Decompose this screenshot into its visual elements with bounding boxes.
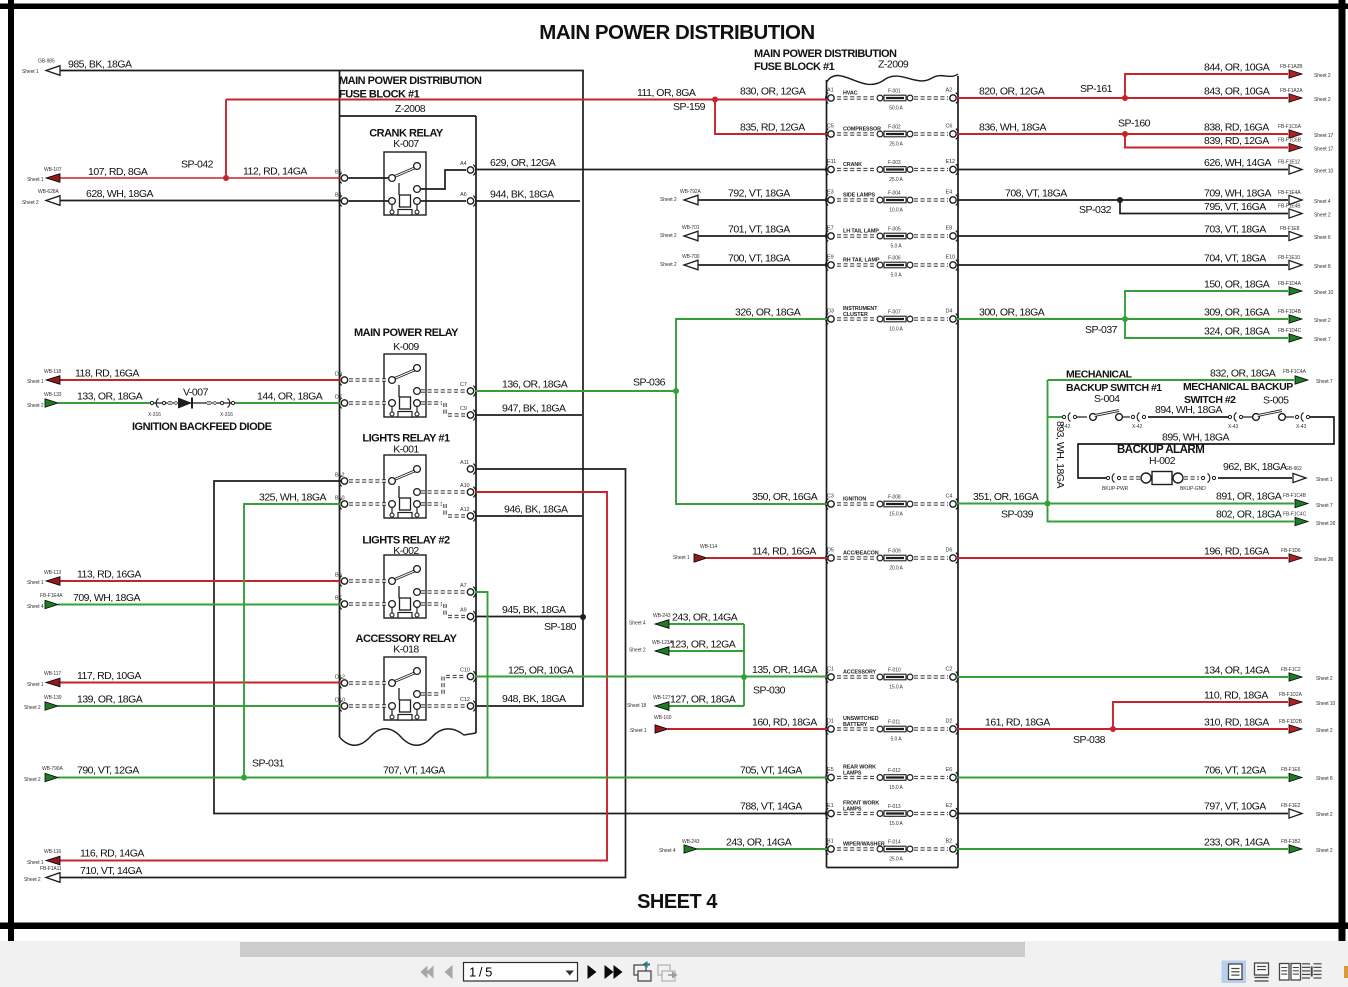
- svg-text:947, BK, 18GA: 947, BK, 18GA: [502, 403, 566, 415]
- svg-text:WB-628A: WB-628A: [38, 189, 59, 195]
- svg-text:WB-113: WB-113: [44, 570, 61, 576]
- svg-text:Sheet 17: Sheet 17: [1314, 133, 1334, 139]
- svg-text:705, VT, 14GA: 705, VT, 14GA: [740, 765, 802, 777]
- svg-text:946, BK, 18GA: 946, BK, 18GA: [504, 504, 568, 516]
- svg-text:Sheet 7: Sheet 7: [1316, 503, 1333, 509]
- svg-text:D4: D4: [946, 309, 953, 315]
- svg-text:CLUSTER: CLUSTER: [843, 312, 868, 318]
- svg-text:FB-F1C4A: FB-F1C4A: [1283, 369, 1307, 375]
- svg-text:Sheet 17: Sheet 17: [1314, 147, 1334, 153]
- svg-text:160, RD, 18GA: 160, RD, 18GA: [752, 717, 817, 729]
- svg-text:E3: E3: [827, 190, 834, 196]
- svg-text:WB-160: WB-160: [654, 715, 672, 721]
- svg-text:D2: D2: [946, 719, 953, 725]
- svg-text:324, OR, 18GA: 324, OR, 18GA: [1204, 326, 1270, 338]
- svg-text:K-001: K-001: [393, 444, 419, 456]
- svg-text:Sheet 2: Sheet 2: [22, 200, 39, 206]
- svg-text:E5: E5: [827, 767, 834, 773]
- svg-text:K-018: K-018: [393, 644, 419, 656]
- svg-text:844, OR, 10GA: 844, OR, 10GA: [1204, 62, 1270, 74]
- svg-text:Sheet 2: Sheet 2: [1316, 848, 1333, 854]
- svg-text:Sheet 1: Sheet 1: [27, 177, 44, 183]
- svg-text:Sheet 1: Sheet 1: [27, 379, 44, 385]
- svg-text:Sheet 4: Sheet 4: [659, 848, 676, 854]
- svg-text:SP-161: SP-161: [1080, 83, 1113, 95]
- svg-text:Z-2009: Z-2009: [878, 59, 909, 71]
- svg-text:A2: A2: [946, 88, 953, 94]
- svg-text:788, VT, 14GA: 788, VT, 14GA: [740, 801, 802, 813]
- svg-text:WB-107: WB-107: [44, 167, 62, 173]
- svg-text:F-004: F-004: [888, 191, 901, 197]
- svg-text:113, RD, 16GA: 113, RD, 16GA: [77, 569, 141, 581]
- svg-text:Sheet 2: Sheet 2: [24, 877, 41, 883]
- svg-text:802, OR, 18GA: 802, OR, 18GA: [1216, 509, 1282, 521]
- svg-text:25.0 A: 25.0 A: [889, 177, 903, 183]
- svg-text:K-007: K-007: [393, 138, 419, 150]
- svg-text:SP-036: SP-036: [633, 377, 666, 389]
- svg-text:C12: C12: [460, 697, 470, 703]
- svg-text:710, VT, 14GA: 710, VT, 14GA: [80, 865, 142, 877]
- svg-text:Sheet 1: Sheet 1: [27, 580, 44, 586]
- svg-text:B9: B9: [335, 573, 342, 579]
- svg-text:WB-123A: WB-123A: [652, 640, 673, 646]
- svg-text:C5: C5: [827, 124, 834, 130]
- svg-text:WB-127: WB-127: [653, 695, 671, 701]
- svg-text:Sheet 26: Sheet 26: [1314, 557, 1334, 563]
- svg-text:116, RD, 14GA: 116, RD, 14GA: [80, 848, 144, 860]
- svg-text:CRANK: CRANK: [843, 162, 862, 168]
- svg-text:FB-F1C4B: FB-F1C4B: [1283, 493, 1307, 499]
- svg-text:SP-180: SP-180: [544, 621, 577, 633]
- svg-text:114, RD, 16GA: 114, RD, 16GA: [752, 546, 816, 558]
- svg-text:351, OR, 16GA: 351, OR, 16GA: [973, 491, 1039, 503]
- svg-text:BKUP-PWR: BKUP-PWR: [1102, 486, 1129, 492]
- svg-text:WB-117: WB-117: [44, 671, 61, 677]
- svg-text:H-002: H-002: [1149, 455, 1176, 467]
- svg-text:FB-F1A11: FB-F1A11: [40, 866, 62, 872]
- svg-text:326, OR, 18GA: 326, OR, 18GA: [735, 307, 801, 319]
- svg-text:110, RD, 18GA: 110, RD, 18GA: [1204, 690, 1268, 702]
- svg-text:832, OR, 18GA: 832, OR, 18GA: [1210, 368, 1276, 380]
- svg-text:SP-159: SP-159: [673, 101, 706, 113]
- svg-text:FB-F1D2B: FB-F1D2B: [1279, 719, 1303, 725]
- svg-text:112, RD, 14GA: 112, RD, 14GA: [243, 166, 307, 178]
- svg-text:626, WH, 14GA: 626, WH, 14GA: [1204, 157, 1272, 169]
- svg-text:Sheet 2: Sheet 2: [1316, 812, 1333, 818]
- svg-text:FB-F1B2: FB-F1B2: [1281, 839, 1301, 845]
- svg-text:COMPRESSOR: COMPRESSOR: [843, 127, 881, 133]
- svg-text:F-009: F-009: [888, 549, 901, 555]
- svg-text:50.0 A: 50.0 A: [889, 106, 903, 112]
- svg-text:830, OR, 12GA: 830, OR, 12GA: [740, 86, 806, 98]
- svg-text:Sheet 4: Sheet 4: [27, 604, 44, 610]
- svg-text:D6: D6: [946, 548, 953, 554]
- svg-text:C3: C3: [827, 494, 834, 500]
- svg-text:BKUP-GND: BKUP-GND: [1180, 486, 1206, 492]
- svg-text:Sheet 1: Sheet 1: [27, 682, 44, 688]
- svg-text:A9: A9: [460, 608, 467, 614]
- svg-text:Sheet 8: Sheet 8: [1314, 264, 1331, 270]
- svg-text:FB-F1E10: FB-F1E10: [1278, 255, 1300, 261]
- svg-text:123, OR, 12GA: 123, OR, 12GA: [670, 639, 736, 651]
- svg-text:139, OR, 18GA: 139, OR, 18GA: [77, 694, 143, 706]
- svg-text:E9: E9: [827, 255, 834, 261]
- svg-text:F-007: F-007: [888, 310, 901, 316]
- svg-text:117, RD, 10GA: 117, RD, 10GA: [77, 670, 141, 682]
- svg-text:Sheet 2: Sheet 2: [660, 197, 677, 203]
- svg-text:FB-F1C2: FB-F1C2: [1281, 667, 1301, 673]
- svg-text:Sheet 2: Sheet 2: [1316, 676, 1333, 682]
- svg-text:Sheet 2: Sheet 2: [1314, 213, 1331, 219]
- svg-text:IGNITION BACKFEED DIODE: IGNITION BACKFEED DIODE: [132, 421, 272, 433]
- svg-text:Sheet 1: Sheet 1: [1316, 477, 1333, 483]
- svg-text:B2: B2: [946, 839, 953, 845]
- svg-text:25.0 A: 25.0 A: [889, 142, 903, 148]
- svg-text:C6: C6: [946, 124, 953, 130]
- svg-text:A12: A12: [460, 507, 470, 513]
- svg-text:FB-F1E6: FB-F1E6: [1281, 767, 1301, 773]
- svg-text:839, RD, 12GA: 839, RD, 12GA: [1204, 135, 1269, 147]
- svg-text:704, VT, 18GA: 704, VT, 18GA: [1204, 253, 1266, 265]
- svg-text:X-43: X-43: [1296, 424, 1306, 430]
- svg-text:107, RD, 8GA: 107, RD, 8GA: [88, 166, 148, 178]
- svg-text:310, RD, 18GA: 310, RD, 18GA: [1204, 717, 1269, 729]
- svg-text:838, RD, 16GA: 838, RD, 16GA: [1204, 122, 1269, 134]
- svg-text:FB-F1E8: FB-F1E8: [1280, 226, 1300, 232]
- svg-text:701, VT, 18GA: 701, VT, 18GA: [728, 224, 790, 236]
- svg-text:1 / 5: 1 / 5: [469, 965, 492, 980]
- svg-text:RH TAIL LAMP: RH TAIL LAMP: [843, 258, 880, 264]
- svg-text:WB-116: WB-116: [44, 849, 61, 855]
- svg-text:D1: D1: [827, 719, 834, 725]
- svg-text:D3: D3: [827, 309, 834, 315]
- svg-text:WB-133: WB-133: [44, 392, 62, 398]
- svg-text:15.0 A: 15.0 A: [889, 785, 903, 791]
- svg-text:Sheet 2: Sheet 2: [1314, 97, 1331, 103]
- svg-text:MAIN POWER RELAY: MAIN POWER RELAY: [354, 327, 459, 339]
- svg-text:SP-037: SP-037: [1085, 324, 1118, 336]
- svg-text:893, WH, 18GA: 893, WH, 18GA: [1054, 421, 1066, 489]
- svg-text:Sheet 26: Sheet 26: [1316, 521, 1336, 527]
- svg-text:ACC/BEACON: ACC/BEACON: [843, 551, 879, 557]
- svg-text:E7: E7: [827, 226, 834, 232]
- svg-text:196, RD, 16GA: 196, RD, 16GA: [1204, 546, 1269, 558]
- svg-text:Sheet 18: Sheet 18: [627, 703, 647, 709]
- svg-text:MECHANICAL: MECHANICAL: [1066, 369, 1133, 381]
- svg-text:BATTERY: BATTERY: [843, 722, 868, 728]
- svg-text:795, VT, 16GA: 795, VT, 16GA: [1204, 201, 1266, 213]
- svg-text:MAIN POWER DISTRIBUTION: MAIN POWER DISTRIBUTION: [754, 48, 897, 60]
- svg-text:B4: B4: [335, 193, 342, 199]
- svg-text:F-001: F-001: [888, 89, 901, 95]
- svg-text:SP-039: SP-039: [1001, 509, 1034, 521]
- svg-text:Sheet 7: Sheet 7: [1316, 379, 1333, 385]
- svg-text:Z-2008: Z-2008: [395, 103, 426, 115]
- svg-text:134, OR, 14GA: 134, OR, 14GA: [1204, 665, 1270, 677]
- svg-text:5.0 A: 5.0 A: [891, 244, 903, 250]
- svg-text:SP-032: SP-032: [1079, 204, 1112, 216]
- svg-text:WB-701: WB-701: [682, 225, 700, 231]
- svg-text:FB-F1E2: FB-F1E2: [1281, 803, 1301, 809]
- svg-text:ACCESSORY: ACCESSORY: [843, 670, 877, 676]
- svg-text:FB-F1D4C: FB-F1D4C: [1278, 328, 1302, 334]
- svg-text:Sheet 2: Sheet 2: [1314, 318, 1331, 324]
- svg-text:A1: A1: [827, 88, 834, 94]
- svg-text:A4: A4: [460, 161, 467, 167]
- svg-text:C7: C7: [460, 382, 467, 388]
- svg-text:X-43: X-43: [1228, 424, 1238, 430]
- svg-text:709, WH, 18GA: 709, WH, 18GA: [73, 592, 141, 604]
- svg-text:891, OR, 18GA: 891, OR, 18GA: [1216, 491, 1282, 503]
- svg-text:10.0 A: 10.0 A: [889, 327, 903, 333]
- svg-text:SP-042: SP-042: [181, 159, 214, 171]
- svg-text:Sheet 2: Sheet 2: [660, 262, 677, 268]
- svg-text:Sheet 10: Sheet 10: [1314, 290, 1334, 296]
- svg-text:WB-792A: WB-792A: [680, 189, 701, 195]
- svg-text:X-316: X-316: [148, 412, 161, 418]
- svg-text:MECHANICAL BACKUP: MECHANICAL BACKUP: [1183, 381, 1293, 393]
- svg-text:820, OR, 12GA: 820, OR, 12GA: [979, 86, 1045, 98]
- svg-text:709, WH, 18GA: 709, WH, 18GA: [1204, 188, 1272, 200]
- svg-text:300, OR, 18GA: 300, OR, 18GA: [979, 307, 1045, 319]
- svg-text:D5: D5: [827, 548, 834, 554]
- svg-text:SIDE LAMPS: SIDE LAMPS: [843, 193, 875, 199]
- svg-text:FB-F1D4A: FB-F1D4A: [1278, 281, 1302, 287]
- svg-text:X-42: X-42: [1132, 424, 1142, 430]
- svg-text:944, BK, 18GA: 944, BK, 18GA: [490, 189, 554, 201]
- svg-text:D10: D10: [335, 698, 345, 704]
- svg-text:125, OR, 10GA: 125, OR, 10GA: [508, 665, 574, 677]
- svg-text:FB-F1C4C: FB-F1C4C: [1283, 512, 1307, 518]
- svg-text:B10: B10: [335, 496, 345, 502]
- svg-text:FB-F1D2A: FB-F1D2A: [1279, 692, 1303, 698]
- svg-text:A7: A7: [460, 583, 467, 589]
- svg-text:FB-F1E12: FB-F1E12: [1278, 160, 1300, 166]
- svg-text:F-014: F-014: [888, 840, 901, 846]
- svg-text:700, VT, 18GA: 700, VT, 18GA: [728, 253, 790, 265]
- svg-text:FB-F1E4A: FB-F1E4A: [1278, 190, 1301, 196]
- svg-text:WB-118: WB-118: [44, 369, 61, 375]
- svg-text:Sheet 2: Sheet 2: [24, 705, 41, 711]
- svg-text:F-006: F-006: [888, 256, 901, 262]
- svg-text:HVAC: HVAC: [843, 91, 858, 97]
- svg-text:5.0 A: 5.0 A: [891, 273, 903, 279]
- svg-text:S-005: S-005: [1263, 395, 1289, 407]
- svg-text:FUSE BLOCK #1: FUSE BLOCK #1: [754, 61, 835, 73]
- svg-text:233, OR, 14GA: 233, OR, 14GA: [1204, 837, 1270, 849]
- svg-text:E2: E2: [946, 803, 953, 809]
- svg-text:FB-F1C6B: FB-F1C6B: [1278, 138, 1302, 144]
- svg-text:Sheet 10: Sheet 10: [1316, 701, 1336, 707]
- svg-text:WB-243: WB-243: [682, 839, 700, 845]
- svg-text:350, OR, 16GA: 350, OR, 16GA: [752, 491, 818, 503]
- svg-text:325, WH, 18GA: 325, WH, 18GA: [259, 492, 327, 504]
- svg-text:V-007: V-007: [183, 387, 209, 399]
- svg-text:Sheet 1: Sheet 1: [630, 728, 647, 734]
- svg-text:C1: C1: [827, 667, 834, 673]
- svg-text:C10: C10: [460, 668, 470, 674]
- svg-text:797, VT, 10GA: 797, VT, 10GA: [1204, 801, 1266, 813]
- svg-text:FB-F1C6A: FB-F1C6A: [1278, 124, 1302, 130]
- svg-text:Sheet 7: Sheet 7: [1314, 337, 1331, 343]
- svg-text:Sheet 2: Sheet 2: [1314, 73, 1331, 79]
- svg-text:A10: A10: [460, 483, 470, 489]
- svg-text:150, OR, 18GA: 150, OR, 18GA: [1204, 279, 1270, 291]
- svg-text:836, WH, 18GA: 836, WH, 18GA: [979, 122, 1047, 134]
- svg-text:15.0 A: 15.0 A: [889, 821, 903, 827]
- svg-text:Sheet 2: Sheet 2: [24, 777, 41, 783]
- svg-text:Sheet 1: Sheet 1: [22, 69, 39, 75]
- svg-text:E4: E4: [946, 190, 953, 196]
- svg-text:948, BK, 18GA: 948, BK, 18GA: [502, 693, 566, 705]
- svg-text:B12: B12: [335, 473, 345, 479]
- svg-text:A6: A6: [460, 192, 467, 198]
- svg-text:127, OR, 18GA: 127, OR, 18GA: [670, 694, 736, 706]
- svg-text:Sheet 8: Sheet 8: [1316, 776, 1333, 782]
- svg-text:MAIN POWER DISTRIBUTION: MAIN POWER DISTRIBUTION: [539, 21, 815, 44]
- svg-text:708, VT, 18GA: 708, VT, 18GA: [1005, 188, 1067, 200]
- svg-text:GB-985: GB-985: [38, 59, 55, 65]
- svg-text:A11: A11: [460, 460, 469, 466]
- svg-text:C2: C2: [946, 667, 953, 673]
- svg-text:628, WH, 18GA: 628, WH, 18GA: [86, 188, 154, 200]
- svg-text:MAIN POWER DISTRIBUTION: MAIN POWER DISTRIBUTION: [339, 75, 482, 87]
- svg-text:SP-031: SP-031: [252, 758, 285, 770]
- svg-text:FB-F1D4B: FB-F1D4B: [1278, 309, 1302, 315]
- svg-text:WB-114: WB-114: [700, 544, 717, 550]
- svg-text:Sheet 6: Sheet 6: [1314, 235, 1331, 241]
- svg-text:E10: E10: [946, 255, 956, 261]
- svg-text:FB-F1A2B: FB-F1A2B: [1280, 64, 1303, 70]
- svg-text:Sheet 4: Sheet 4: [629, 621, 646, 627]
- svg-text:135, OR, 14GA: 135, OR, 14GA: [752, 664, 818, 676]
- svg-text:WB-790A: WB-790A: [42, 766, 63, 772]
- svg-text:E8: E8: [946, 226, 953, 232]
- svg-text:SP-038: SP-038: [1073, 734, 1106, 746]
- svg-text:Sheet 2: Sheet 2: [27, 403, 44, 409]
- svg-text:E1: E1: [827, 803, 834, 809]
- svg-text:133, OR, 18GA: 133, OR, 18GA: [77, 391, 143, 403]
- svg-text:E6: E6: [946, 767, 953, 773]
- svg-text:D7: D7: [335, 395, 342, 401]
- svg-text:962, BK, 18GA: 962, BK, 18GA: [1223, 461, 1287, 473]
- svg-text:5.0 A: 5.0 A: [891, 737, 903, 743]
- svg-text:E12: E12: [946, 159, 956, 165]
- svg-text:243, OR, 14GA: 243, OR, 14GA: [672, 612, 738, 624]
- svg-text:WIPER/WASHER: WIPER/WASHER: [843, 842, 885, 848]
- svg-text:945, BK, 18GA: 945, BK, 18GA: [502, 604, 566, 616]
- svg-text:F-005: F-005: [888, 227, 901, 233]
- svg-text:D12: D12: [335, 675, 345, 681]
- svg-text:790, VT, 12GA: 790, VT, 12GA: [77, 765, 139, 777]
- svg-text:K-002: K-002: [393, 545, 419, 557]
- svg-text:15.0 A: 15.0 A: [889, 512, 903, 518]
- svg-text:136, OR, 18GA: 136, OR, 18GA: [502, 379, 568, 391]
- svg-text:15.0 A: 15.0 A: [889, 685, 903, 691]
- svg-text:Sheet 2: Sheet 2: [1316, 728, 1333, 734]
- svg-text:WB-700: WB-700: [682, 254, 700, 260]
- svg-text:D9: D9: [335, 372, 342, 378]
- svg-text:118, RD, 16GA: 118, RD, 16GA: [75, 368, 139, 380]
- svg-text:SWITCH #2: SWITCH #2: [1184, 394, 1236, 406]
- svg-text:B6: B6: [335, 170, 342, 176]
- svg-text:Sheet 2: Sheet 2: [660, 233, 677, 239]
- svg-text:FB-F1D6: FB-F1D6: [1281, 548, 1301, 554]
- svg-text:SP-160: SP-160: [1118, 118, 1151, 130]
- svg-text:F-002: F-002: [888, 125, 901, 131]
- svg-text:Sheet 1: Sheet 1: [673, 555, 690, 561]
- svg-text:F-013: F-013: [888, 804, 901, 810]
- svg-text:835, RD, 12GA: 835, RD, 12GA: [740, 122, 805, 134]
- svg-text:FB-F1E4A: FB-F1E4A: [40, 593, 63, 599]
- svg-text:20.0 A: 20.0 A: [889, 566, 903, 572]
- svg-text:Sheet 10: Sheet 10: [1314, 169, 1334, 175]
- svg-text:F-011: F-011: [888, 720, 901, 726]
- svg-text:F-010: F-010: [888, 668, 901, 674]
- svg-text:C9: C9: [460, 406, 467, 412]
- svg-text:243, OR, 14GA: 243, OR, 14GA: [726, 837, 792, 849]
- svg-text:GB-962: GB-962: [1285, 466, 1302, 472]
- svg-text:WB-243: WB-243: [653, 613, 671, 619]
- svg-text:792, VT, 18GA: 792, VT, 18GA: [728, 188, 790, 200]
- svg-text:706, VT, 12GA: 706, VT, 12GA: [1204, 765, 1266, 777]
- svg-text:843, OR, 10GA: 843, OR, 10GA: [1204, 86, 1270, 98]
- svg-text:144, OR, 18GA: 144, OR, 18GA: [257, 391, 323, 403]
- svg-text:SP-030: SP-030: [753, 685, 786, 697]
- svg-text:703, VT, 18GA: 703, VT, 18GA: [1204, 224, 1266, 236]
- svg-text:B7: B7: [335, 596, 342, 602]
- svg-text:K-009: K-009: [393, 341, 419, 353]
- svg-text:25.0 A: 25.0 A: [889, 857, 903, 863]
- svg-text:S-004: S-004: [1094, 393, 1120, 405]
- svg-text:WB-139: WB-139: [44, 695, 62, 701]
- svg-text:X-316: X-316: [220, 412, 233, 418]
- svg-text:111, OR, 8GA: 111, OR, 8GA: [637, 87, 696, 99]
- svg-text:629, OR, 12GA: 629, OR, 12GA: [490, 157, 556, 169]
- svg-text:F-003: F-003: [888, 160, 901, 166]
- svg-text:SHEET 4: SHEET 4: [637, 891, 718, 913]
- svg-text:10.0 A: 10.0 A: [889, 208, 903, 214]
- svg-text:C4: C4: [946, 494, 953, 500]
- svg-text:F-012: F-012: [888, 768, 901, 774]
- svg-text:FB-F1A2A: FB-F1A2A: [1280, 88, 1303, 94]
- svg-text:LAMPS: LAMPS: [843, 771, 862, 777]
- svg-text:Sheet 4: Sheet 4: [1314, 199, 1331, 205]
- svg-text:Sheet 2: Sheet 2: [629, 648, 646, 654]
- svg-text:707, VT, 14GA: 707, VT, 14GA: [383, 765, 445, 777]
- svg-text:FB-F1E4B: FB-F1E4B: [1278, 204, 1301, 210]
- svg-text:LH TAIL LAMP: LH TAIL LAMP: [843, 229, 879, 235]
- svg-text:309, OR, 16GA: 309, OR, 16GA: [1204, 307, 1270, 319]
- svg-text:985, BK, 18GA: 985, BK, 18GA: [68, 59, 132, 71]
- svg-text:IGNITION: IGNITION: [843, 497, 866, 503]
- svg-text:895, WH, 18GA: 895, WH, 18GA: [1162, 432, 1230, 444]
- svg-text:161, RD, 18GA: 161, RD, 18GA: [985, 717, 1050, 729]
- svg-text:E11: E11: [827, 159, 836, 165]
- svg-text:F-008: F-008: [888, 495, 901, 501]
- svg-text:B1: B1: [827, 839, 834, 845]
- svg-text:LAMPS: LAMPS: [843, 807, 862, 813]
